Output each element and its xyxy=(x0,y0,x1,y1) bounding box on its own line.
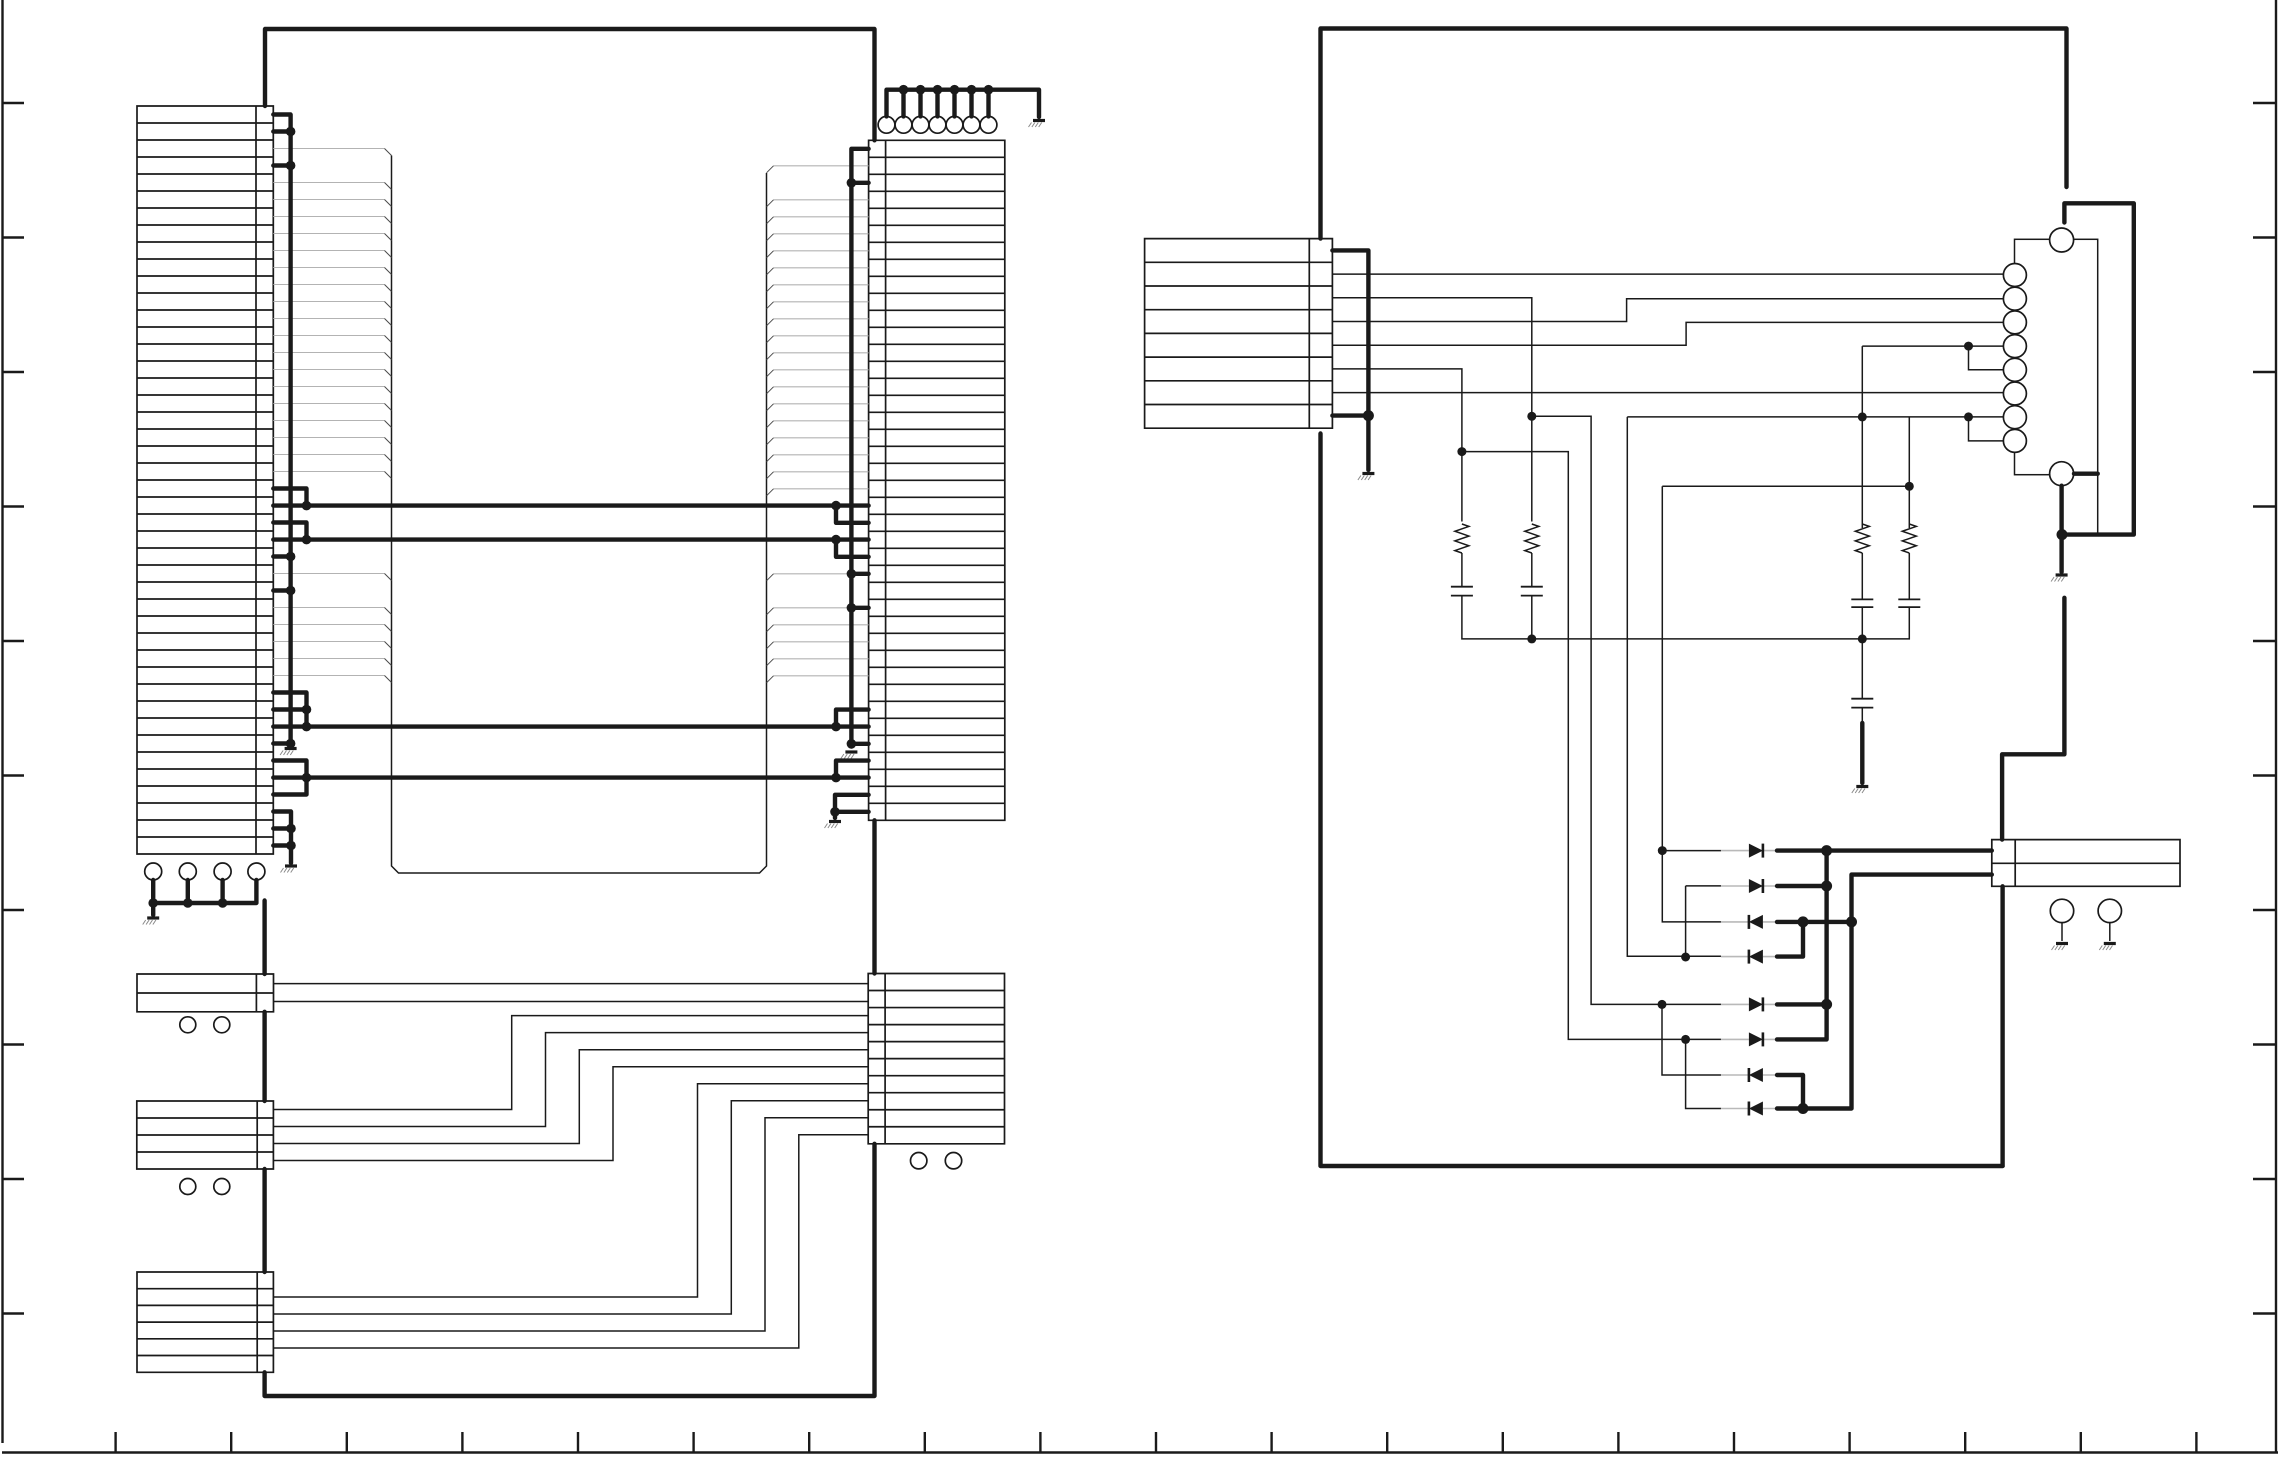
connector CN201 (8-pin) xyxy=(1145,239,1333,429)
wire net SIG1 (row24) xyxy=(273,489,868,523)
board B outline frame xyxy=(1321,29,2067,1167)
wire CN201 pin4 to J201 pin2 xyxy=(1332,299,2003,322)
wire TP18 ground lead xyxy=(2061,923,2063,941)
page tick marks bottom xyxy=(116,1432,2197,1453)
ground (CN102 bus) xyxy=(845,750,857,753)
wire shield loop xyxy=(2062,203,2134,572)
wire ground group CN101 rows 42-44 xyxy=(273,812,291,864)
page border left rule xyxy=(1,0,3,1443)
bus entry wires from CN101 xyxy=(273,149,384,676)
connector CN202 (2-pin) xyxy=(1992,840,2180,887)
diode D208 xyxy=(1721,1108,1777,1110)
diode D207 xyxy=(1721,1074,1777,1076)
test points TP5-TP11 xyxy=(878,116,895,133)
diode D205 xyxy=(1721,1003,1777,1005)
board A outline frame xyxy=(265,29,875,1396)
connector CN101 (left 44-pin) xyxy=(137,106,273,854)
ground (TP bus) xyxy=(1033,119,1045,122)
ground (test points) xyxy=(147,916,159,919)
connector J201 outline xyxy=(2015,239,2098,474)
page tick marks left xyxy=(3,103,25,1314)
test point TP19 xyxy=(2098,899,2121,922)
page border right rule xyxy=(2275,0,2277,1452)
page tick marks right xyxy=(2253,103,2277,1314)
diode D206 xyxy=(1721,1038,1777,1040)
ground (TP19) xyxy=(2104,942,2116,945)
test points TP1-TP4 xyxy=(145,863,162,880)
wire diode bus B to CN202 pin2 xyxy=(1777,875,1992,1109)
connector CN104 (4-pin) xyxy=(137,1101,274,1169)
test points TP16-TP17 xyxy=(911,1153,927,1169)
test points TP14-TP15 xyxy=(180,1179,196,1195)
resistor R202 xyxy=(1525,524,1539,553)
wire TP19 ground lead xyxy=(2109,923,2111,941)
ground (shield) xyxy=(2056,573,2068,576)
wire TP ground bus xyxy=(887,90,1040,117)
capacitor C201 xyxy=(1451,587,1473,596)
connector J201 shell pin top xyxy=(2050,228,2074,252)
resistor R204 xyxy=(1902,524,1916,553)
wire R202-C202 lead xyxy=(1531,553,1533,587)
page border bottom rule xyxy=(2,1451,2278,1453)
ground (TP18) xyxy=(2056,942,2068,945)
diode D202 xyxy=(1721,885,1777,887)
wire J201 box edge extension xyxy=(2097,475,2099,535)
wire CN201 pin7 to J201 pin6 xyxy=(1332,392,2003,394)
wire R203-C203 lead xyxy=(1861,553,1863,599)
connector CN103 (2-pin) xyxy=(137,974,274,1012)
ground (CN201) xyxy=(1362,472,1374,475)
wire CN201 pin6 net (R201/D206/D208) xyxy=(1332,369,1721,1109)
capacitor C205 xyxy=(1851,699,1873,708)
wire ground group CN102 rows 39-40 xyxy=(835,795,869,818)
ground (CN101 bus) xyxy=(285,747,297,750)
wire CN103 to CN106 pins 1-2 xyxy=(274,984,869,1002)
wire net SIG2 (row26) xyxy=(273,523,868,557)
wire R201-C201 lead xyxy=(1461,553,1463,587)
capacitor C203 xyxy=(1851,599,1873,607)
bus entry wires to CN102 xyxy=(774,166,869,676)
connector CN106 (10-pin) xyxy=(868,974,1004,1144)
resistor R203 xyxy=(1855,524,1869,553)
wire CN201 pin3 net (R202/D205/D207) xyxy=(1332,298,1721,1075)
wire capacitor common bus xyxy=(1462,596,1909,699)
test point TP18 xyxy=(2050,899,2073,922)
power bus wire at CN101 xyxy=(273,115,290,747)
diode D203 xyxy=(1721,921,1777,923)
connector J201 pins 1-8 xyxy=(2003,264,2026,287)
diode D201 xyxy=(1721,850,1777,852)
wire net SIG3 (row36) xyxy=(273,693,868,727)
wire diode bus A to CN202 pin1 xyxy=(1777,851,1992,1040)
wire R204-C204 lead xyxy=(1908,553,1910,599)
power bus wire at CN102 xyxy=(851,149,868,747)
wire CN201 pin1/pin8 ground net xyxy=(1332,250,1368,470)
wire CN104 to CN106 pins 3-6 xyxy=(273,1016,868,1161)
diode D204 xyxy=(1721,956,1777,958)
connector CN102 (right 40-pin) xyxy=(869,140,1005,820)
connector J201 shell pin bottom xyxy=(2050,462,2074,486)
wire CN201 pin2 to J201 pin1 xyxy=(1332,273,2003,275)
wire test point bus xyxy=(153,880,256,915)
capacitor C204 xyxy=(1898,599,1920,607)
wire J201 shell bottom segment xyxy=(2074,472,2098,476)
wire CN105 to CN106 pins 7-10 xyxy=(273,1084,868,1348)
ground (C205) xyxy=(1856,785,1868,788)
capacitor C202 xyxy=(1521,587,1543,596)
test points TP12-TP13 xyxy=(180,1017,196,1033)
ground (CN101 rows 42-44) xyxy=(285,864,297,867)
wire net KEY1 (J201 pins 4/5/7/8, R203, D202/D204) xyxy=(1627,346,2003,957)
ground (CN102 rows 39-40) xyxy=(829,820,841,823)
wire CN201 pin5 to J201 pin3 xyxy=(1332,322,2003,345)
wire net SIG4 (row40) xyxy=(273,761,868,795)
bus U-channel (signal bus) xyxy=(392,156,767,874)
resistor R201 xyxy=(1455,524,1469,553)
wire net KEY2 (R204, D201/D203) xyxy=(1662,417,1909,922)
connector CN105 (6-pin) xyxy=(137,1272,273,1372)
wire C205 ground lead xyxy=(1861,708,1863,723)
